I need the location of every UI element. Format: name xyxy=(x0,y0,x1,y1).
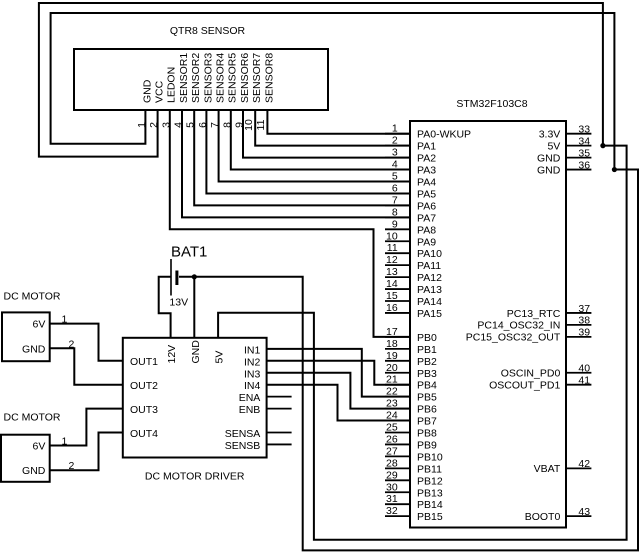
svg-text:ENB: ENB xyxy=(239,404,261,416)
svg-text:35: 35 xyxy=(578,147,590,159)
driver top pin label 5V xyxy=(214,351,226,364)
net VCC/5V: QTR8 pin 2 to frame to STM32 pin 34 xyxy=(39,3,603,157)
STM32 pin 27 PB10 xyxy=(385,445,443,463)
svg-text:6V: 6V xyxy=(33,319,46,331)
svg-text:SENSOR2: SENSOR2 xyxy=(190,53,202,103)
STM32 pin 36 GND xyxy=(537,159,591,176)
svg-text:PA2: PA2 xyxy=(417,153,436,165)
STM32 pin 20 PB3 xyxy=(385,362,437,380)
STM32 pin 41 OSCOUT_PD1 xyxy=(489,375,591,392)
motor M1 pin 1 wire to OUT1 xyxy=(50,314,123,361)
svg-text:PB0: PB0 xyxy=(417,332,437,344)
wire QTR8 pin 7 to STM32 PA4 xyxy=(219,110,410,182)
svg-text:40: 40 xyxy=(578,363,590,375)
svg-text:16: 16 xyxy=(386,302,398,314)
svg-text:43: 43 xyxy=(578,506,590,518)
STM32 pin 42 VBAT xyxy=(534,458,592,475)
svg-text:20: 20 xyxy=(386,362,398,374)
svg-text:OUT1: OUT1 xyxy=(130,356,158,368)
QTR8 pin label SENSOR4 xyxy=(215,53,227,103)
battery BAT1 symbol xyxy=(169,243,207,308)
svg-text:PB2: PB2 xyxy=(417,356,437,368)
driver pin IN1 xyxy=(244,344,261,356)
svg-text:DC MOTOR: DC MOTOR xyxy=(4,291,61,303)
junction battery minus / driver GND xyxy=(192,274,197,279)
STM32 pin 28 PB11 xyxy=(385,457,442,475)
svg-text:PB10: PB10 xyxy=(417,451,443,463)
wire QTR8 pin 8 to STM32 PA3 xyxy=(231,110,410,170)
motor driver body xyxy=(123,338,267,483)
svg-text:PA8: PA8 xyxy=(417,224,436,236)
svg-text:PB4: PB4 xyxy=(417,380,437,392)
svg-text:GND: GND xyxy=(537,152,561,164)
driver pin OUT1 xyxy=(130,356,158,368)
svg-text:LEDON: LEDON xyxy=(166,67,178,103)
STM32 pin 37 PC13_RTC xyxy=(507,303,592,320)
driver pin IN4 xyxy=(244,380,261,392)
STM32 pin 13 PA12 xyxy=(385,266,442,284)
wire QTR8 LEDON to STM32 PB0 xyxy=(170,110,410,337)
STM32 pin 15 PA14 xyxy=(385,290,442,308)
svg-text:1: 1 xyxy=(62,314,68,326)
svg-text:IN1: IN1 xyxy=(244,344,261,356)
svg-text:IN4: IN4 xyxy=(244,380,261,392)
STM32 pin 1 PA0-WKUP xyxy=(385,123,471,141)
svg-text:37: 37 xyxy=(578,303,590,315)
QTR8 pin number 11 xyxy=(255,119,267,130)
STM32 pin 30 PB13 xyxy=(385,481,443,499)
STM32 pin 11 PA10 xyxy=(385,242,442,260)
STM32 pin 6 PA5 xyxy=(385,182,436,200)
svg-text:PA1: PA1 xyxy=(417,141,436,153)
STM32 pin 32 PB15 xyxy=(385,505,443,523)
svg-text:PA5: PA5 xyxy=(417,188,436,200)
STM32 pin 31 PB14 xyxy=(385,493,443,511)
svg-text:GND: GND xyxy=(190,340,202,364)
STM32 pin 29 PB12 xyxy=(385,469,443,487)
driver pin SENSB xyxy=(225,440,292,452)
wire GND rail pin36 to battery minus xyxy=(179,170,638,551)
STM32 pin 23 PB6 xyxy=(385,398,437,416)
STM32 pin 14 PA13 xyxy=(385,278,442,296)
svg-text:PB12: PB12 xyxy=(417,475,443,487)
QTR8 pin label SENSOR1 xyxy=(178,53,190,103)
STM32 pin 39 PC15_OSC32_OUT xyxy=(466,327,592,344)
svg-text:PA3: PA3 xyxy=(417,165,436,177)
QTR8 pin label SENSOR7 xyxy=(251,53,263,103)
wire QTR8 pin 6 to STM32 PA5 xyxy=(206,110,410,193)
motor M1 body xyxy=(2,291,61,362)
driver pin OUT4 xyxy=(130,428,158,440)
svg-text:OUT4: OUT4 xyxy=(130,428,158,440)
motor M2 body xyxy=(1,411,61,481)
wire IN2 to PB4 xyxy=(267,361,410,385)
net GND: QTR8 pin 1 to frame to STM32 pin 36 xyxy=(51,13,615,170)
STM32 pin 33 3.3V xyxy=(539,124,592,141)
svg-text:SENSB: SENSB xyxy=(225,440,261,452)
STM32 pin 2 PA1 xyxy=(385,135,436,153)
wire QTR8 pin 5 to STM32 PA6 xyxy=(194,110,410,205)
STM32 pin 16 PA15 xyxy=(385,302,442,320)
svg-text:39: 39 xyxy=(578,327,590,339)
svg-text:PC15_OSC32_OUT: PC15_OSC32_OUT xyxy=(466,332,561,344)
svg-text:2: 2 xyxy=(69,338,75,350)
svg-text:33: 33 xyxy=(578,124,590,136)
svg-text:SENSOR6: SENSOR6 xyxy=(239,53,251,103)
wire QTR8 pin 9 to STM32 PA2 xyxy=(243,110,410,158)
QTR8 pin number 7 xyxy=(209,122,221,128)
svg-text:SENSOR1: SENSOR1 xyxy=(178,53,190,103)
svg-text:5V: 5V xyxy=(547,140,560,152)
svg-text:SENSOR3: SENSOR3 xyxy=(202,53,214,103)
svg-text:PB13: PB13 xyxy=(417,487,443,499)
svg-text:12: 12 xyxy=(386,254,398,266)
svg-text:SENSOR4: SENSOR4 xyxy=(215,53,227,103)
svg-text:30: 30 xyxy=(386,481,398,493)
svg-text:PA7: PA7 xyxy=(417,212,436,224)
driver top pin label GND xyxy=(190,340,202,364)
STM32 pin 26 PB9 xyxy=(385,433,437,451)
svg-text:9: 9 xyxy=(392,218,398,230)
motor M2 pin 1 wire to OUT3 xyxy=(50,409,123,448)
driver pin SENSA xyxy=(225,428,292,440)
svg-text:PA9: PA9 xyxy=(417,236,436,248)
svg-text:DC MOTOR DRIVER: DC MOTOR DRIVER xyxy=(145,471,245,483)
svg-text:25: 25 xyxy=(386,422,398,434)
STM32 pin 25 PB8 xyxy=(385,422,437,440)
QTR8 pin label VCC xyxy=(154,80,166,103)
svg-text:IN3: IN3 xyxy=(244,368,261,380)
svg-text:2: 2 xyxy=(69,460,75,472)
svg-text:PA6: PA6 xyxy=(417,200,436,212)
STM32 pin 43 BOOT0 xyxy=(525,506,592,523)
svg-text:11: 11 xyxy=(255,119,267,130)
svg-text:15: 15 xyxy=(386,290,398,302)
svg-text:PB3: PB3 xyxy=(417,368,437,380)
STM32 pin 21 PB4 xyxy=(385,374,437,392)
svg-text:PA15: PA15 xyxy=(417,308,442,320)
svg-text:38: 38 xyxy=(578,315,590,327)
QTR8 pin number 3 xyxy=(160,122,172,128)
STM32 pin 40 OSCIN_PD0 xyxy=(501,363,592,380)
QTR8 pin number 9 xyxy=(234,122,246,128)
svg-text:13: 13 xyxy=(386,266,398,278)
wire IN1 to PB5 xyxy=(267,349,410,397)
motor M1 pin 2 wire to OUT2 xyxy=(50,338,123,384)
svg-text:PA14: PA14 xyxy=(417,296,442,308)
svg-text:32: 32 xyxy=(386,505,398,517)
STM32 pin 18 PB1 xyxy=(385,338,437,356)
wire driver GND pin up to battery junction xyxy=(193,277,195,338)
QTR8 sensor module body xyxy=(74,25,328,110)
driver pin ENB xyxy=(239,404,292,416)
svg-text:PA13: PA13 xyxy=(417,284,442,296)
svg-text:GND: GND xyxy=(22,465,46,477)
svg-text:PA10: PA10 xyxy=(417,248,442,260)
wire QTR8 pin 11 to STM32 PA0-WKUP xyxy=(267,110,410,134)
svg-text:PB5: PB5 xyxy=(417,392,437,404)
svg-text:PB8: PB8 xyxy=(417,428,437,440)
QTR8 pin number 5 xyxy=(185,122,197,128)
svg-text:36: 36 xyxy=(578,159,590,171)
QTR8 pin number 2 xyxy=(148,122,160,128)
svg-text:PA12: PA12 xyxy=(417,272,442,284)
svg-text:IN2: IN2 xyxy=(244,356,261,368)
svg-text:SENSOR8: SENSOR8 xyxy=(263,53,275,103)
svg-text:GND: GND xyxy=(141,79,153,103)
STM32 pin 22 PB5 xyxy=(385,386,437,404)
wire battery plus to motor-driver 12V xyxy=(159,277,171,338)
svg-text:GND: GND xyxy=(537,164,561,176)
svg-text:OSCOUT_PD1: OSCOUT_PD1 xyxy=(489,380,560,392)
svg-text:PB7: PB7 xyxy=(417,416,437,428)
svg-text:PB11: PB11 xyxy=(417,463,442,475)
wire IN4 to PB7 xyxy=(267,385,410,421)
svg-text:41: 41 xyxy=(578,375,590,387)
svg-text:OUT2: OUT2 xyxy=(130,380,158,392)
STM32 pin 35 GND xyxy=(537,147,591,164)
svg-text:VBAT: VBAT xyxy=(534,463,561,475)
driver top pin label 12V xyxy=(166,345,178,364)
STM32 pin 9 PA8 xyxy=(385,218,436,236)
junction 5V at pin 34 xyxy=(600,143,605,148)
svg-text:12V: 12V xyxy=(166,345,178,364)
QTR8 pin number 10 xyxy=(243,119,255,131)
STM32 pin 38 PC14_OSC32_IN xyxy=(477,315,591,332)
svg-text:PB1: PB1 xyxy=(417,344,437,356)
svg-text:SENSOR7: SENSOR7 xyxy=(251,53,263,103)
QTR8 pin label SENSOR6 xyxy=(239,53,251,103)
svg-text:GND: GND xyxy=(22,343,46,355)
wire 5V rail pin34 to motor-driver 5V xyxy=(218,146,626,540)
STM32 pin 7 PA6 xyxy=(385,194,436,212)
motor M2 pin 2 wire to OUT4 xyxy=(50,433,123,473)
svg-text:SENSA: SENSA xyxy=(225,428,261,440)
svg-text:OSCIN_PD0: OSCIN_PD0 xyxy=(501,368,561,380)
svg-text:1: 1 xyxy=(62,436,68,448)
STM32 pin 12 PA11 xyxy=(385,254,441,272)
svg-text:QTR8 SENSOR: QTR8 SENSOR xyxy=(170,25,246,37)
svg-text:5V: 5V xyxy=(214,351,226,364)
STM32 pin 3 PA2 xyxy=(385,147,436,165)
QTR8 pin number 8 xyxy=(221,122,233,128)
svg-text:PC13_RTC: PC13_RTC xyxy=(507,308,561,320)
svg-text:18: 18 xyxy=(386,338,398,350)
svg-text:10: 10 xyxy=(386,230,398,242)
svg-text:31: 31 xyxy=(386,493,398,505)
junction GND at pin 36 xyxy=(612,167,617,172)
svg-text:3.3V: 3.3V xyxy=(539,129,561,141)
QTR8 pin label SENSOR5 xyxy=(227,53,239,103)
svg-text:PA11: PA11 xyxy=(417,260,441,272)
svg-text:PA4: PA4 xyxy=(417,177,436,189)
svg-text:11: 11 xyxy=(387,242,398,254)
STM32 pin 34 5V xyxy=(547,135,591,152)
STM32 pin 19 PB2 xyxy=(385,350,437,368)
svg-text:27: 27 xyxy=(386,445,398,457)
STM32 pin 10 PA9 xyxy=(385,230,436,248)
svg-text:42: 42 xyxy=(578,458,590,470)
svg-text:13V: 13V xyxy=(169,297,188,309)
QTR8 pin number 4 xyxy=(173,122,185,128)
svg-text:PB14: PB14 xyxy=(417,499,443,511)
QTR8 pin label GND xyxy=(141,79,153,103)
STM32 pin 17 PB0 xyxy=(385,326,437,344)
svg-text:19: 19 xyxy=(386,350,398,362)
svg-text:PB9: PB9 xyxy=(417,439,437,451)
wire QTR8 pin 10 to STM32 PA1 xyxy=(255,110,410,146)
driver pin ENA xyxy=(239,392,292,404)
svg-text:PB6: PB6 xyxy=(417,404,437,416)
svg-text:OUT3: OUT3 xyxy=(130,404,158,416)
driver pin OUT3 xyxy=(130,404,158,416)
QTR8 pin label LEDON xyxy=(166,67,178,103)
QTR8 pin label SENSOR2 xyxy=(190,53,202,103)
svg-text:34: 34 xyxy=(578,135,590,147)
svg-text:14: 14 xyxy=(386,278,398,290)
svg-text:SENSOR5: SENSOR5 xyxy=(227,53,239,103)
svg-text:28: 28 xyxy=(386,457,398,469)
STM32 pin 24 PB7 xyxy=(385,410,437,428)
STM32 pin 5 PA4 xyxy=(385,171,436,189)
svg-text:29: 29 xyxy=(386,469,398,481)
driver pin OUT2 xyxy=(130,380,158,392)
svg-text:BAT1: BAT1 xyxy=(171,243,207,260)
STM32 pin 4 PA3 xyxy=(385,159,436,177)
svg-text:PB15: PB15 xyxy=(417,511,443,523)
svg-text:PA0-WKUP: PA0-WKUP xyxy=(417,129,471,141)
wire IN3 to PB6 xyxy=(267,373,410,409)
svg-text:10: 10 xyxy=(243,119,255,131)
svg-text:VCC: VCC xyxy=(154,80,166,103)
QTR8 pin number 1 xyxy=(136,122,148,128)
svg-text:DC MOTOR: DC MOTOR xyxy=(4,411,61,423)
svg-text:BOOT0: BOOT0 xyxy=(525,511,561,523)
QTR8 pin label SENSOR3 xyxy=(202,53,214,103)
svg-text:STM32F103C8: STM32F103C8 xyxy=(456,98,527,110)
STM32 pin 8 PA7 xyxy=(385,206,436,224)
wire QTR8 pin 4 to STM32 PA7 xyxy=(182,110,410,217)
QTR8 pin label SENSOR8 xyxy=(263,53,275,103)
svg-text:26: 26 xyxy=(386,433,398,445)
svg-text:ENA: ENA xyxy=(239,392,261,404)
driver pin IN2 xyxy=(244,356,261,368)
svg-text:PC14_OSC32_IN: PC14_OSC32_IN xyxy=(477,320,560,332)
microcontroller U1 STM32F103C8 body xyxy=(410,98,566,528)
svg-text:6V: 6V xyxy=(33,441,46,453)
driver pin IN3 xyxy=(244,368,261,380)
QTR8 pin number 6 xyxy=(197,122,209,128)
